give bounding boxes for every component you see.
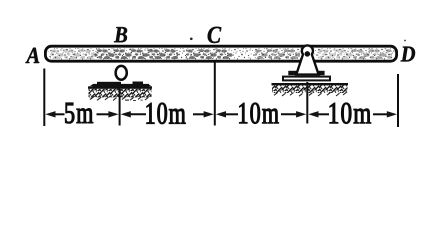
wire: dimension extension line below A bbox=[43, 69, 45, 127]
dimension line segment A-B with arrows bbox=[45, 111, 118, 117]
ground hatch under roller support B bbox=[88, 88, 152, 101]
stray specks above first 10m bbox=[125, 100, 129, 101]
node label C bbox=[208, 27, 222, 43]
wire: dimension extension line below pin support bbox=[306, 82, 308, 124]
roller (circle) of support B bbox=[116, 66, 127, 80]
node label A bbox=[25, 48, 39, 63]
dimension label 10m (C-support) bbox=[239, 103, 278, 124]
stray speck above D bbox=[404, 40, 406, 42]
pin (dot) of pin support bbox=[305, 51, 311, 57]
dimension line segment C-support with arrows bbox=[216, 111, 306, 117]
wire: dimension extension line below D bbox=[397, 74, 399, 127]
pin support bracket (rounded-top triangle) bbox=[296, 45, 318, 74]
dimension label 10m (B-C) bbox=[147, 103, 186, 124]
roller support plate at B bbox=[90, 82, 152, 88]
node label B bbox=[114, 27, 127, 42]
ground hatch under pin support bbox=[272, 84, 349, 96]
node label D bbox=[401, 47, 415, 62]
dimension line segment B-C with arrows bbox=[121, 111, 214, 117]
beam AD (stippled bar) bbox=[45, 46, 396, 61]
pin support feet bbox=[288, 71, 297, 75]
pin support base plate bbox=[283, 77, 330, 81]
dimension label 10m (support-D) bbox=[330, 103, 371, 124]
dimension label 5m bbox=[65, 103, 93, 123]
stray speck between B and C bbox=[190, 38, 193, 41]
wire: dimension extension line below C bbox=[214, 63, 216, 126]
dimension line segment support-D with arrows bbox=[308, 111, 397, 117]
wire: dimension extension line below B bbox=[119, 84, 121, 126]
